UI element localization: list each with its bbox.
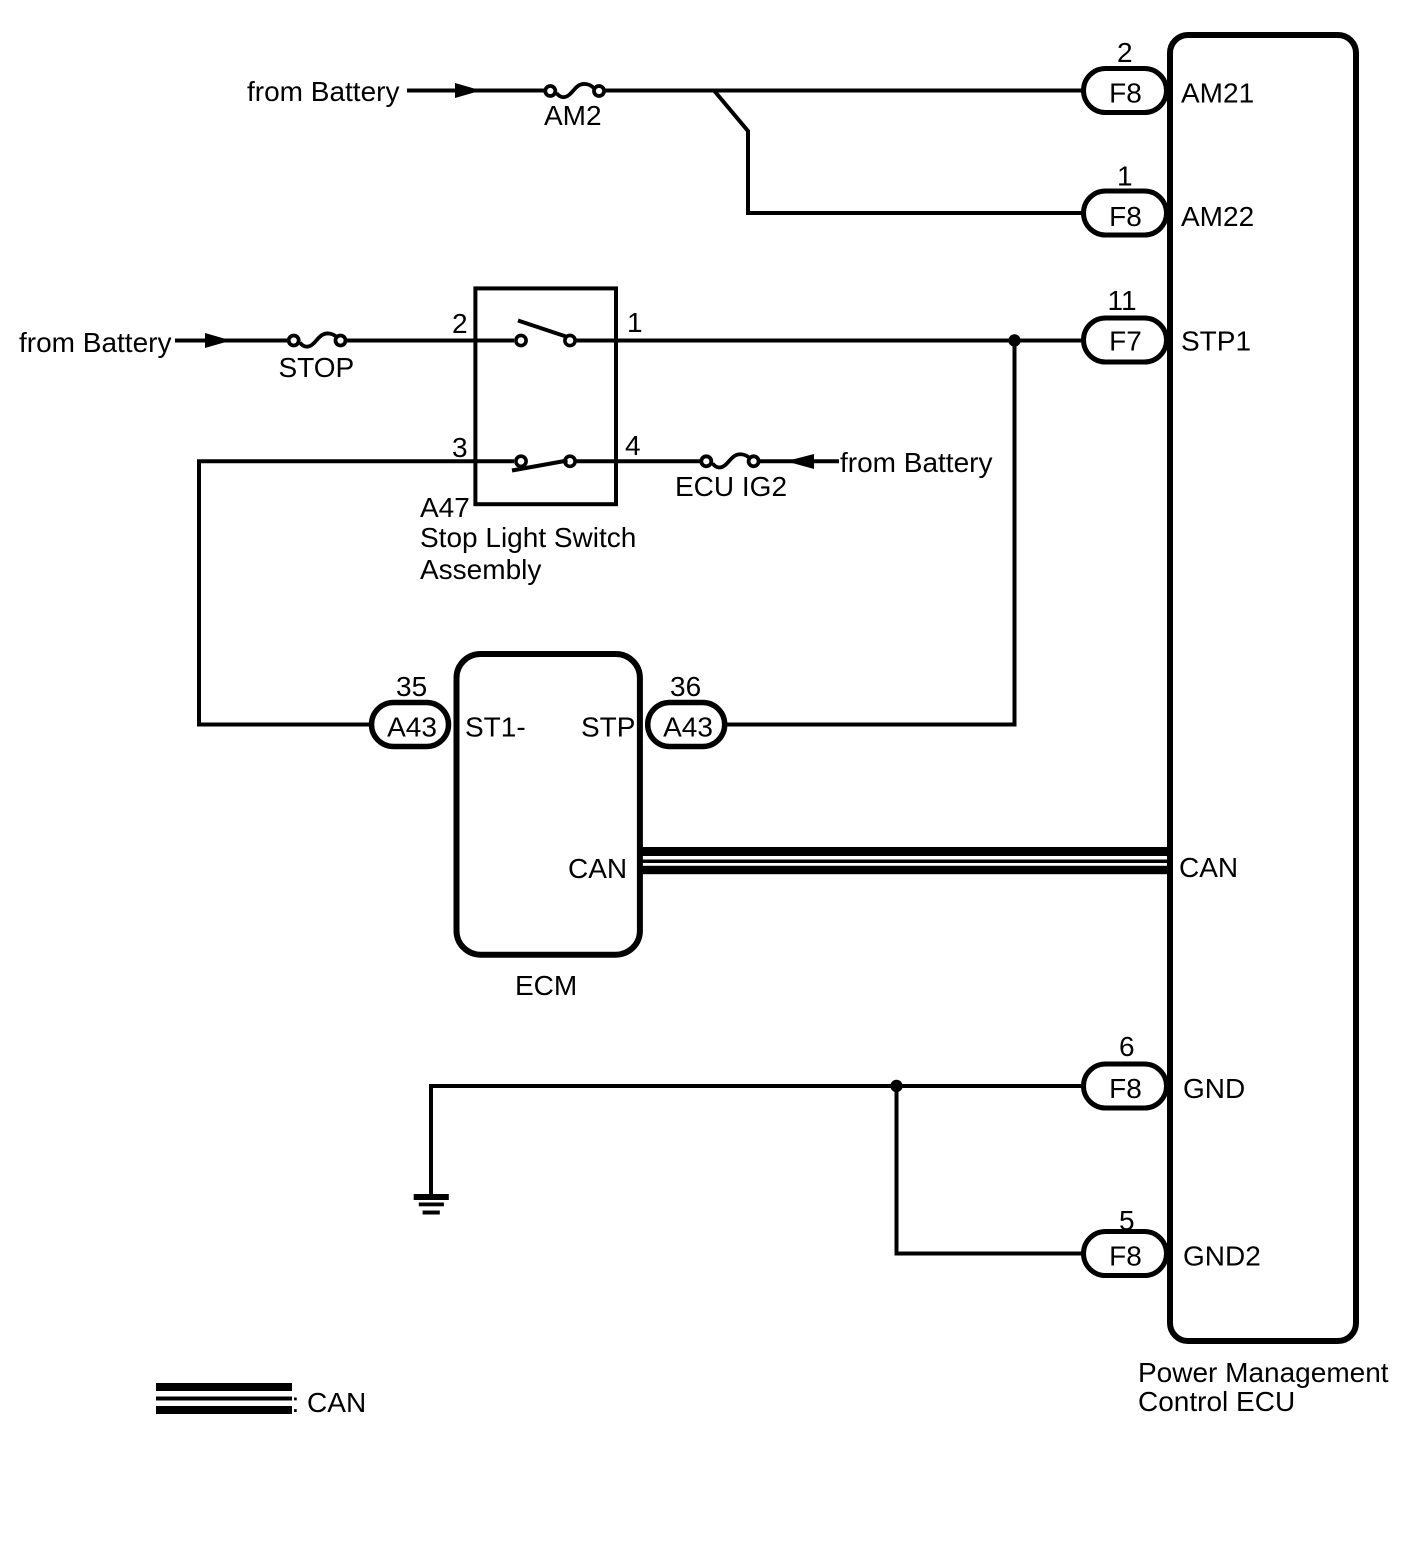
svg-text:STP: STP: [581, 712, 635, 743]
switch contact 2 circles: [516, 456, 575, 466]
svg-text:: CAN: : CAN: [292, 1387, 367, 1418]
legend CAN bus sample: [156, 1383, 292, 1414]
svg-text:A47: A47: [420, 492, 470, 523]
connector A43 pin 35 (ST1-): [372, 703, 449, 747]
wire: switch pin 3 to ECM ST1- (left, down, right): [199, 461, 514, 724]
svg-text:STP1: STP1: [1181, 326, 1251, 357]
svg-text:CAN: CAN: [1179, 852, 1238, 883]
arrow (pointing left) on ECU IG2 wire: [786, 454, 814, 469]
arrow on top battery wire: [455, 83, 481, 98]
wire: branch to AM22 (diagonal + vertical + horizontal): [714, 91, 1083, 214]
svg-text:AM2: AM2: [544, 100, 602, 131]
svg-text:CAN: CAN: [568, 853, 627, 884]
arrow on middle battery wire: [205, 333, 231, 348]
svg-text:36: 36: [670, 671, 701, 702]
ground symbol: [414, 1194, 449, 1215]
switch lever 2: [512, 461, 568, 471]
connector F8 pin 1 (AM22): [1084, 191, 1167, 235]
svg-text:F8: F8: [1109, 1241, 1142, 1272]
connector F8 pin 5 (GND2): [1084, 1232, 1167, 1276]
wire: fuse AM2 to F8 pin 2: [604, 89, 1083, 93]
wire: switch pin 1 to F7 (STP1): [575, 339, 1083, 343]
svg-text:2: 2: [452, 308, 468, 339]
svg-text:F7: F7: [1109, 326, 1142, 357]
fuse STOP: [289, 333, 346, 346]
svg-text:1: 1: [627, 307, 643, 338]
fuse ECU IG2: [701, 454, 758, 467]
connector A43 pin 36 (STP): [648, 703, 725, 747]
svg-text:ECM: ECM: [515, 970, 577, 1001]
connector F8 pin 2 (AM21): [1084, 69, 1167, 113]
connector F8 pin 6 (GND): [1084, 1064, 1167, 1108]
svg-text:F8: F8: [1109, 78, 1142, 109]
svg-text:GND: GND: [1183, 1073, 1245, 1104]
junction node STP1: [1008, 334, 1020, 346]
wire: A43 pin 36 to STP1 junction (right, up): [727, 341, 1015, 725]
svg-text:ST1-: ST1-: [465, 712, 526, 743]
switch box A47: [475, 288, 616, 504]
svg-text:4: 4: [625, 430, 641, 461]
svg-text:Stop Light Switch: Stop Light Switch: [420, 522, 636, 553]
svg-text:F8: F8: [1109, 201, 1142, 232]
svg-text:1: 1: [1117, 161, 1133, 192]
svg-text:ECU IG2: ECU IG2: [675, 471, 787, 502]
switch contact 1 circles: [516, 335, 575, 345]
CAN bus between ECM and ECU: [642, 847, 1168, 874]
svg-text:A43: A43: [387, 712, 437, 743]
svg-text:STOP: STOP: [279, 352, 355, 383]
svg-text:3: 3: [452, 432, 468, 463]
svg-text:Control ECU: Control ECU: [1138, 1386, 1295, 1417]
ECM box: [457, 654, 640, 955]
wire: fuse STOP to switch pin 2: [346, 339, 515, 343]
wire: fuse ECU IG2 to from-Battery arrow: [759, 459, 839, 463]
fuse AM2: [545, 84, 604, 97]
wire: ground to F8 pin 6 (GND): [431, 1086, 1083, 1196]
svg-text:GND2: GND2: [1183, 1241, 1261, 1272]
svg-text:A43: A43: [663, 712, 713, 743]
svg-text:6: 6: [1119, 1031, 1135, 1062]
svg-text:Power Management: Power Management: [1138, 1357, 1389, 1388]
svg-text:from Battery: from Battery: [840, 447, 992, 478]
svg-text:F8: F8: [1109, 1073, 1142, 1104]
svg-text:from Battery: from Battery: [247, 76, 399, 107]
svg-text:AM22: AM22: [1181, 201, 1254, 232]
connector F7 pin 11 (STP1): [1084, 318, 1167, 362]
junction node GND: [890, 1080, 902, 1092]
Power Management Control ECU box: [1170, 35, 1356, 1341]
svg-text:35: 35: [396, 671, 427, 702]
svg-text:from Battery: from Battery: [19, 327, 171, 358]
wire: junction to F8 pin 5 (GND2): [897, 1086, 1084, 1254]
svg-text:AM21: AM21: [1181, 78, 1254, 109]
svg-text:2: 2: [1117, 37, 1133, 68]
wire: switch pin 4 to fuse ECU IG2: [575, 459, 701, 463]
wire: battery to fuse AM2: [407, 89, 546, 93]
svg-text:11: 11: [1108, 285, 1137, 316]
svg-text:Assembly: Assembly: [420, 554, 541, 585]
wire: battery to fuse STOP: [175, 339, 290, 343]
switch lever 1 (open): [518, 321, 566, 337]
